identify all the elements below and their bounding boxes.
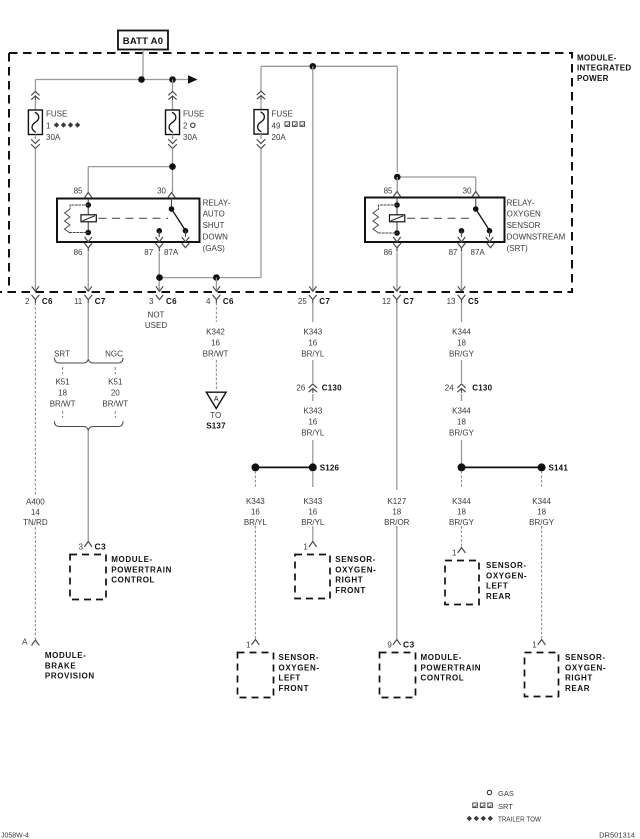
svg-text:18: 18 (537, 507, 546, 516)
svg-text:K343: K343 (303, 407, 322, 416)
svg-text:K127: K127 (387, 497, 406, 506)
svg-text:18: 18 (457, 418, 466, 427)
svg-text:C130: C130 (472, 384, 492, 393)
svg-text:SENSOR-: SENSOR- (335, 555, 376, 564)
svg-text:26: 26 (296, 384, 305, 393)
svg-text:INTEGRATED: INTEGRATED (577, 64, 631, 73)
svg-text:BR/YL: BR/YL (301, 518, 325, 527)
svg-text:1: 1 (46, 121, 51, 130)
svg-text:K343: K343 (246, 497, 265, 506)
svg-text:9: 9 (387, 641, 392, 650)
svg-text:1: 1 (532, 641, 537, 650)
svg-text:RELAY-: RELAY- (203, 198, 231, 207)
svg-text:AUTO: AUTO (203, 210, 225, 219)
svg-text:BR/YL: BR/YL (244, 518, 268, 527)
svg-text:(SRT): (SRT) (507, 244, 529, 253)
svg-text:MODULE-: MODULE- (577, 54, 616, 63)
svg-text:18: 18 (58, 389, 67, 398)
svg-text:RIGHT: RIGHT (335, 576, 363, 585)
svg-text:A400: A400 (26, 497, 45, 506)
svg-text:USED: USED (145, 321, 167, 330)
svg-text:BR/WT: BR/WT (102, 400, 128, 409)
svg-text:DOWN: DOWN (203, 233, 229, 242)
svg-text:RELAY-: RELAY- (507, 198, 535, 207)
svg-text:20: 20 (111, 389, 120, 398)
svg-text:PROVISION: PROVISION (45, 672, 95, 681)
svg-text:FRONT: FRONT (279, 684, 310, 693)
svg-text:87A: 87A (471, 248, 486, 257)
svg-text:85: 85 (74, 186, 83, 195)
svg-text:20A: 20A (272, 133, 287, 142)
svg-text:C7: C7 (403, 297, 414, 306)
svg-text:87A: 87A (164, 248, 179, 257)
svg-text:2: 2 (25, 297, 30, 306)
svg-text:DR501314: DR501314 (599, 831, 635, 839)
svg-text:K51: K51 (108, 378, 123, 387)
svg-text:30A: 30A (46, 133, 61, 142)
svg-text:OXYGEN-: OXYGEN- (335, 565, 376, 574)
svg-text:DOWNSTREAM: DOWNSTREAM (507, 233, 566, 242)
svg-text:BR/GY: BR/GY (449, 349, 475, 358)
svg-text:BR/GY: BR/GY (449, 429, 475, 438)
svg-text:A: A (214, 396, 219, 403)
svg-text:SENSOR: SENSOR (507, 221, 541, 230)
svg-text:LEFT: LEFT (279, 674, 301, 683)
svg-text:30A: 30A (183, 133, 198, 142)
svg-text:OXYGEN: OXYGEN (507, 210, 541, 219)
svg-text:MODULE-: MODULE- (421, 653, 463, 662)
svg-text:16: 16 (308, 507, 317, 516)
svg-text:C3: C3 (95, 542, 106, 552)
svg-text:TRAILER TOW: TRAILER TOW (498, 815, 542, 824)
svg-text:A: A (22, 638, 28, 647)
svg-text:SENSOR-: SENSOR- (486, 561, 527, 570)
svg-text:CONTROL: CONTROL (111, 576, 155, 585)
svg-text:14: 14 (31, 508, 40, 517)
svg-text:87: 87 (144, 248, 153, 257)
svg-text:LEFT: LEFT (486, 582, 508, 591)
svg-text:K344: K344 (532, 497, 551, 506)
svg-text:C3: C3 (403, 640, 414, 650)
svg-text:BR/YL: BR/YL (301, 429, 325, 438)
svg-text:16: 16 (308, 418, 317, 427)
svg-text:FUSE: FUSE (46, 110, 67, 119)
svg-text:25: 25 (298, 297, 307, 306)
svg-text:TN/RD: TN/RD (23, 518, 48, 527)
svg-text:CONTROL: CONTROL (421, 674, 465, 683)
svg-text:3: 3 (149, 297, 154, 306)
svg-text:2: 2 (183, 121, 188, 130)
svg-text:K344: K344 (452, 407, 471, 416)
svg-text:16: 16 (308, 339, 317, 348)
svg-text:18: 18 (457, 507, 466, 516)
svg-text:BR/WT: BR/WT (203, 349, 229, 358)
svg-text:K343: K343 (303, 497, 322, 506)
svg-text:J058W-4: J058W-4 (1, 833, 29, 839)
svg-text:49: 49 (272, 121, 281, 130)
svg-text:C6: C6 (223, 297, 234, 306)
svg-text:1: 1 (452, 549, 457, 558)
svg-text:BR/WT: BR/WT (50, 400, 76, 409)
svg-text:BRAKE: BRAKE (45, 661, 77, 670)
svg-text:POWERTRAIN: POWERTRAIN (111, 565, 172, 574)
svg-text:C7: C7 (319, 297, 330, 306)
svg-text:4: 4 (206, 297, 211, 306)
svg-text:18: 18 (392, 507, 401, 516)
svg-text:POWER: POWER (577, 74, 609, 83)
svg-text:12: 12 (382, 297, 391, 306)
svg-text:(GAS): (GAS) (203, 244, 226, 253)
svg-text:86: 86 (384, 248, 393, 257)
svg-text:K342: K342 (206, 328, 225, 337)
svg-text:C5: C5 (468, 297, 479, 306)
svg-text:BR/GY: BR/GY (449, 518, 475, 527)
svg-text:24: 24 (445, 384, 454, 393)
svg-text:RIGHT: RIGHT (565, 674, 593, 683)
svg-text:16: 16 (211, 339, 220, 348)
svg-text:SRT: SRT (54, 350, 70, 359)
svg-text:SRT: SRT (498, 802, 513, 811)
svg-text:1: 1 (246, 641, 251, 650)
svg-text:NOT: NOT (148, 310, 165, 319)
svg-text:BR/YL: BR/YL (301, 349, 325, 358)
svg-text:FUSE: FUSE (183, 110, 204, 119)
svg-text:REAR: REAR (486, 592, 511, 601)
svg-text:BR/GY: BR/GY (529, 518, 555, 527)
svg-text:SHUT: SHUT (203, 221, 225, 230)
svg-text:K344: K344 (452, 497, 471, 506)
svg-text:16: 16 (251, 507, 260, 516)
svg-text:BR/OR: BR/OR (384, 518, 410, 527)
svg-text:K344: K344 (452, 328, 471, 337)
svg-text:OXYGEN-: OXYGEN- (486, 571, 527, 580)
svg-text:13: 13 (447, 297, 456, 306)
svg-text:C7: C7 (95, 297, 106, 306)
svg-text:SENSOR-: SENSOR- (279, 653, 320, 662)
svg-text:C130: C130 (322, 384, 342, 393)
svg-text:K51: K51 (55, 378, 70, 387)
svg-text:MODULE-: MODULE- (45, 651, 87, 660)
svg-text:18: 18 (457, 339, 466, 348)
svg-text:K343: K343 (303, 328, 322, 337)
svg-text:NGC: NGC (105, 350, 123, 359)
svg-text:MODULE-: MODULE- (111, 555, 153, 564)
svg-text:C6: C6 (42, 297, 53, 306)
svg-text:86: 86 (74, 248, 83, 257)
svg-text:1: 1 (303, 543, 308, 552)
svg-text:OXYGEN-: OXYGEN- (279, 663, 320, 672)
svg-text:SENSOR-: SENSOR- (565, 653, 606, 662)
svg-text:C6: C6 (166, 297, 177, 306)
svg-text:87: 87 (449, 248, 458, 257)
svg-text:BATT A0: BATT A0 (123, 36, 163, 47)
svg-text:FUSE: FUSE (272, 110, 293, 119)
svg-text:30: 30 (463, 186, 472, 195)
svg-text:S126: S126 (320, 464, 340, 473)
svg-text:3: 3 (79, 543, 84, 552)
svg-text:11: 11 (74, 297, 83, 306)
svg-text:OXYGEN-: OXYGEN- (565, 663, 606, 672)
svg-text:FRONT: FRONT (335, 586, 366, 595)
svg-text:REAR: REAR (565, 684, 590, 693)
svg-text:GAS: GAS (498, 789, 514, 798)
svg-text:S137: S137 (206, 421, 226, 430)
svg-text:30: 30 (157, 186, 166, 195)
svg-text:S141: S141 (549, 464, 569, 473)
svg-text:POWERTRAIN: POWERTRAIN (421, 663, 482, 672)
svg-text:TO: TO (210, 411, 221, 420)
svg-text:85: 85 (384, 186, 393, 195)
